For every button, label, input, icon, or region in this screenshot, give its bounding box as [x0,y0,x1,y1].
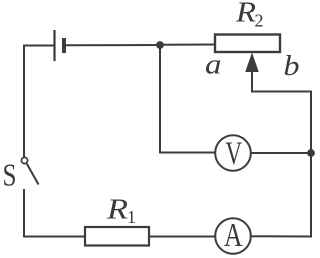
svg-text:R: R [235,0,256,29]
label R1 [106,194,136,228]
svg-text:S: S [3,158,17,193]
wire wiper horizontal run [251,91,311,93]
wire junction1 down to voltmeter level [159,45,161,153]
svg-text:A: A [224,217,243,254]
svg-text:1: 1 [127,207,136,227]
switch S hinge [21,157,27,163]
junction node at top (dot) [156,41,164,49]
junction node at right (dot) [307,149,315,157]
battery short plate (negative) [62,38,66,53]
wire voltmeter to right junction [251,152,311,154]
wire right rail upper [310,91,312,154]
svg-text:a: a [205,49,222,81]
wire right rail lower [310,153,312,238]
wire junction to R2 [160,44,216,46]
wire ammeter to bottom-right corner [251,235,312,237]
wire to voltmeter left [159,152,215,154]
ammeter A body [215,218,251,254]
resistor R1 body [85,227,149,246]
svg-text:b: b [284,51,300,82]
wiper arrow of R2 [245,53,259,92]
wire battery to junction [66,44,160,46]
svg-text:V: V [226,136,243,172]
voltmeter V body [215,135,251,171]
rheostat R2 body [215,35,280,53]
label R2 [235,0,264,31]
wire bottom left [23,236,85,238]
wire R1 to ammeter [149,236,215,238]
wire left rail lower [23,189,25,238]
switch S blade [27,164,39,185]
wire left rail upper [23,45,25,158]
svg-text:2: 2 [255,11,264,31]
wire top-left horizontal [23,45,54,47]
svg-text:R: R [106,194,129,226]
battery long plate (positive) [53,30,55,61]
